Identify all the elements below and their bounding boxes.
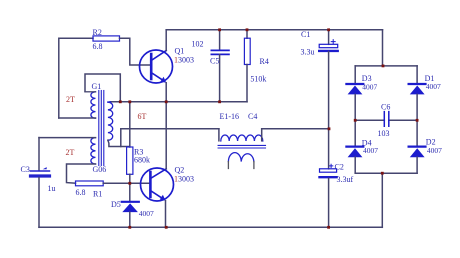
svg-text:4007: 4007 — [363, 146, 378, 155]
svg-text:6.8: 6.8 — [93, 42, 103, 51]
diode D3 — [354, 66, 356, 83]
bridge bottom wire — [355, 172, 417, 174]
resistor R4 — [246, 30, 248, 38]
svg-text:G1: G1 — [92, 82, 102, 91]
svg-text:C6: C6 — [381, 102, 390, 111]
wire top to bridge — [382, 30, 384, 66]
resistor R1 — [76, 181, 104, 186]
svg-text:C2: C2 — [335, 163, 344, 172]
bottom rail — [39, 226, 382, 228]
svg-text:Q2: Q2 — [175, 165, 185, 174]
wire left loop vertical — [59, 38, 93, 118]
wire output to E1-16 — [121, 128, 219, 130]
svg-text:680k: 680k — [134, 156, 150, 165]
junction Q2 base / R3 / D5 — [128, 182, 131, 185]
node half-bridge midpoint Q1 emitter / Q2 collector — [165, 100, 168, 103]
svg-text:Q1: Q1 — [175, 47, 185, 56]
svg-text:2T: 2T — [66, 95, 75, 104]
svg-text:C1: C1 — [301, 30, 310, 39]
junction bridge bottom feed — [381, 172, 384, 175]
junction C5 top / top rail — [218, 28, 221, 31]
resistor R3 — [127, 147, 133, 174]
resistor R2 — [93, 36, 120, 41]
svg-text:3.3uf: 3.3uf — [337, 175, 354, 184]
wire Q1 collector — [165, 30, 167, 51]
junction D5 cathode / bottom rail — [128, 226, 131, 229]
bridge top wire — [355, 65, 417, 67]
transformer E1-16 primary — [218, 129, 220, 141]
junction C1 top / top rail — [327, 28, 330, 31]
svg-text:4007: 4007 — [427, 146, 442, 155]
junction feedback rail / R3 branch — [128, 100, 131, 103]
svg-text:2T: 2T — [66, 148, 75, 157]
diode D5 — [129, 183, 131, 201]
wire mid rail — [110, 101, 247, 103]
svg-text:4007: 4007 — [426, 82, 441, 91]
transformer winding 2T lower G06 — [91, 138, 96, 164]
capacitor C1 — [328, 30, 330, 45]
capacitor C5 — [219, 30, 221, 50]
capacitor C3 — [38, 138, 40, 171]
wire Q1 emitter — [165, 83, 167, 102]
wire Q2 emitter — [165, 201, 167, 228]
svg-text:E1-16: E1-16 — [220, 112, 240, 121]
junction bridge top feed — [382, 65, 385, 68]
diode D1 — [416, 66, 418, 83]
svg-text:C3: C3 — [21, 165, 30, 174]
wire Q2 collector — [165, 102, 167, 169]
junction R4 top / top rail — [246, 28, 249, 31]
node output / C1-C2 center tap — [328, 127, 331, 130]
wire base rail Q2 — [103, 182, 150, 184]
junction G1 winding top / feedback rail — [119, 100, 122, 103]
svg-text:13003: 13003 — [174, 56, 194, 65]
svg-text:3.3u: 3.3u — [301, 48, 315, 57]
svg-text:6T: 6T — [138, 112, 147, 121]
wire 6T bottom lead — [108, 140, 130, 146]
wire 6T top to rail — [108, 101, 111, 103]
junction D1/D2/C6 right — [416, 119, 419, 122]
svg-text:102: 102 — [192, 40, 204, 49]
svg-text:4007: 4007 — [362, 82, 377, 91]
svg-text:C5: C5 — [210, 57, 219, 66]
wire E1-16 to C-node — [262, 128, 329, 130]
svg-text:D5: D5 — [111, 200, 121, 209]
wire top rail — [166, 29, 382, 31]
bridge mid wire — [355, 119, 417, 121]
junction C2 bottom / bottom rail — [327, 226, 330, 229]
svg-text:G06: G06 — [93, 165, 107, 174]
junction D3/D4/C6 left — [354, 119, 357, 122]
svg-text:103: 103 — [378, 129, 390, 138]
transformer winding 6T — [108, 102, 113, 140]
wire rail to R3 — [129, 102, 131, 147]
svg-text:R1: R1 — [93, 189, 102, 198]
svg-text:C4: C4 — [248, 112, 257, 121]
junction C5 bottom / feedback rail — [218, 100, 221, 103]
wire winding bottom to R1 — [67, 164, 96, 183]
wire G1 top rectangle — [85, 74, 120, 102]
transformer core — [99, 91, 104, 166]
transformer winding 2T upper G1 — [91, 92, 96, 118]
svg-text:R2: R2 — [93, 28, 102, 37]
wire winding bottom to left loop — [59, 117, 96, 119]
svg-text:1u: 1u — [48, 184, 56, 193]
wire R2 to Q1 base — [120, 38, 151, 65]
diode D2 — [416, 120, 418, 145]
capacitor C2 — [320, 169, 337, 172]
wire output corner — [120, 129, 122, 147]
transformer E1-16 core — [218, 145, 265, 148]
junction Q2 emitter / bottom rail — [165, 226, 168, 229]
svg-text:510k: 510k — [250, 74, 266, 83]
capacitor C6 — [384, 112, 389, 127]
svg-text:4007: 4007 — [139, 209, 154, 218]
transformer E1-16 secondary — [228, 153, 254, 162]
wire bridge to bottom rail — [381, 173, 383, 227]
transistor Q1 — [140, 50, 173, 83]
svg-text:R4: R4 — [260, 57, 269, 66]
svg-text:13003: 13003 — [174, 174, 194, 183]
transistor Q2 — [141, 168, 174, 201]
diode D4 — [354, 120, 356, 145]
wire C1 to C2 — [328, 52, 330, 169]
wire C3 to winding top — [39, 137, 96, 139]
svg-text:6.8: 6.8 — [76, 188, 86, 197]
